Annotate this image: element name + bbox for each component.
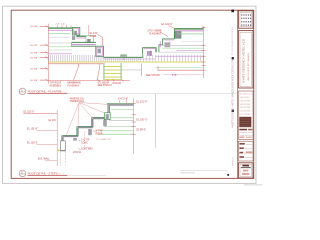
- svg-text:MEMBRANE: MEMBRANE: [68, 82, 82, 85]
- svg-text:FLASHING: FLASHING: [68, 84, 80, 87]
- L3 band: [72, 41, 96, 43]
- L2 band: [76, 35, 86, 37]
- step side notes: [73, 130, 103, 154]
- right steps up: [143, 48, 157, 58]
- yellow ladder joist: [103, 63, 121, 80]
- L1 roof band left: [48, 27, 72, 28]
- svg-text:No. Date Issue: No. Date Issue: [240, 93, 253, 96]
- plot stamp bottom: [244, 184, 263, 185]
- box5 sheet number: [238, 163, 253, 178]
- svg-text:3 05.22 REV: 3 05.22 REV: [240, 104, 251, 106]
- fold marks: [231, 10, 234, 13]
- top band: [109, 104, 134, 106]
- svg-text:EL 121': EL 121': [31, 45, 39, 47]
- svg-text:W12x26: W12x26: [113, 83, 122, 85]
- svg-text:EL 101'-8": EL 101'-8": [137, 101, 148, 104]
- box4 info rows: [238, 141, 253, 161]
- svg-text:EL 124': EL 124': [31, 26, 39, 28]
- curb box at top step: [104, 113, 110, 120]
- layers below L1: [48, 37, 70, 39]
- red leaders to bottom notes: [74, 64, 101, 81]
- svg-text:TYP: TYP: [172, 75, 177, 77]
- svg-text:EL 100'-0": EL 100'-0": [27, 141, 38, 144]
- stair treads: [63, 119, 105, 137]
- svg-text:6 07.14 REV: 6 07.14 REV: [240, 114, 251, 116]
- svg-text:1/2"=1': 1/2"=1': [60, 91, 67, 93]
- svg-text:STL BEAM: STL BEAM: [98, 81, 109, 84]
- svg-text:EL 119': EL 119': [31, 53, 39, 55]
- svg-text:2: 2: [21, 170, 23, 174]
- box3 revisions / stamp: [238, 91, 253, 139]
- svg-text:EL 101': EL 101': [49, 120, 57, 122]
- svg-text:EL 116': EL 116': [31, 69, 39, 71]
- metal deck ticks: [49, 55, 204, 61]
- level B lines to dim: [104, 126, 133, 128]
- valley floor: [103, 56, 142, 58]
- svg-text:T.O. SLAB TYP: T.O. SLAB TYP: [96, 138, 112, 141]
- svg-text:SEE STRUCT: SEE STRUCT: [146, 75, 161, 77]
- svg-text:1/2"=1': 1/2"=1': [58, 173, 65, 175]
- elevation markers left: [31, 26, 39, 82]
- inner sheet border: [11, 10, 254, 178]
- svg-text:ISSUE 04: ISSUE 04: [233, 156, 235, 166]
- svg-text:HYATT REGENCY HOTEL VANCOUVER: HYATT REGENCY HOTEL VANCOUVER ROOF DETAI…: [232, 57, 235, 128]
- box1 logo: [238, 11, 253, 28]
- riser to top band: [108, 105, 110, 113]
- right lower layers: [181, 41, 203, 43]
- svg-text:ROOF DETAIL - PLANTER: ROOF DETAIL - PLANTER: [28, 89, 62, 93]
- svg-text:5 06.30 REV: 5 06.30 REV: [240, 111, 251, 113]
- right red dimension vertical: [203, 27, 205, 78]
- svg-text:ROOF DETAIL - STEPS: ROOF DETAIL - STEPS: [28, 171, 58, 175]
- svg-text:4 06.10 REV: 4 06.10 REV: [240, 107, 251, 109]
- wall below: [60, 141, 65, 151]
- svg-text:EL 124'-6": EL 124'-6": [162, 23, 173, 26]
- svg-text:CONT BRG: CONT BRG: [81, 148, 93, 150]
- svg-text:EL 114': EL 114': [31, 80, 39, 82]
- valley bump curb: [121, 55, 126, 57]
- svg-text:EL 100'-0": EL 100'-0": [137, 118, 148, 121]
- svg-text:CURB: CURB: [90, 35, 97, 38]
- outer paper border: [3, 6, 257, 183]
- bottom red notes: [50, 75, 177, 87]
- left red dimension vertical: [47, 24, 49, 85]
- svg-text:EL 101'-0": EL 101'-0": [27, 127, 38, 130]
- top right band: [174, 28, 203, 30]
- svg-text:1: 1: [21, 88, 23, 92]
- svg-text:2/A5.02: 2/A5.02: [73, 151, 82, 154]
- svg-text:TYP ROOF: TYP ROOF: [50, 83, 62, 85]
- red tick row: [48, 79, 130, 81]
- stair risers: [63, 119, 93, 142]
- right notes: [148, 23, 173, 36]
- svg-text:RISER: RISER: [96, 133, 103, 135]
- EL note mid with leader: [90, 32, 98, 38]
- svg-text:1'-0" TR: 1'-0" TR: [81, 139, 90, 141]
- svg-text:FLASHING: FLASHING: [149, 32, 161, 35]
- svg-text:8" TYP: 8" TYP: [96, 130, 104, 132]
- curb box 3 / step down to valley: [96, 46, 104, 56]
- svg-text:EL 102'-0": EL 102'-0": [24, 110, 35, 113]
- svg-text:07.14.00 ISSUED FOR CONSTR: 07.14.00 ISSUED FOR CONSTR: [232, 26, 234, 55]
- svg-text:ASSEMBLY: ASSEMBLY: [50, 84, 63, 87]
- svg-text:EL 118': EL 118': [31, 57, 39, 59]
- parapet cap box 1: [72, 27, 79, 35]
- svg-text:SEE STRUCT: SEE STRUCT: [98, 85, 113, 87]
- lower red beam lines: [48, 63, 103, 65]
- svg-text:B.O. WALL: B.O. WALL: [38, 158, 51, 161]
- svg-text:2 05.02 REV: 2 05.02 REV: [240, 100, 251, 102]
- svg-text:1 04.12 IFC: 1 04.12 IFC: [240, 97, 251, 99]
- box2 project: [238, 31, 253, 88]
- svg-text:HYATT REGENCY HOTEL VCR: HYATT REGENCY HOTEL VCR: [242, 38, 246, 83]
- long gray vertical: [154, 94, 156, 148]
- red dim right of band: [133, 98, 135, 154]
- svg-text:VANCOUVER, BC CANADA: VANCOUVER, BC CANADA: [247, 53, 250, 81]
- svg-text:EL 99'-0": EL 99'-0": [137, 128, 147, 131]
- stair lumps: [73, 138, 77, 141]
- left red dims: [56, 110, 58, 166]
- svg-text:2'-0" 1'-6": 2'-0" 1'-6": [56, 23, 66, 25]
- deck yellow line: [49, 61, 204, 63]
